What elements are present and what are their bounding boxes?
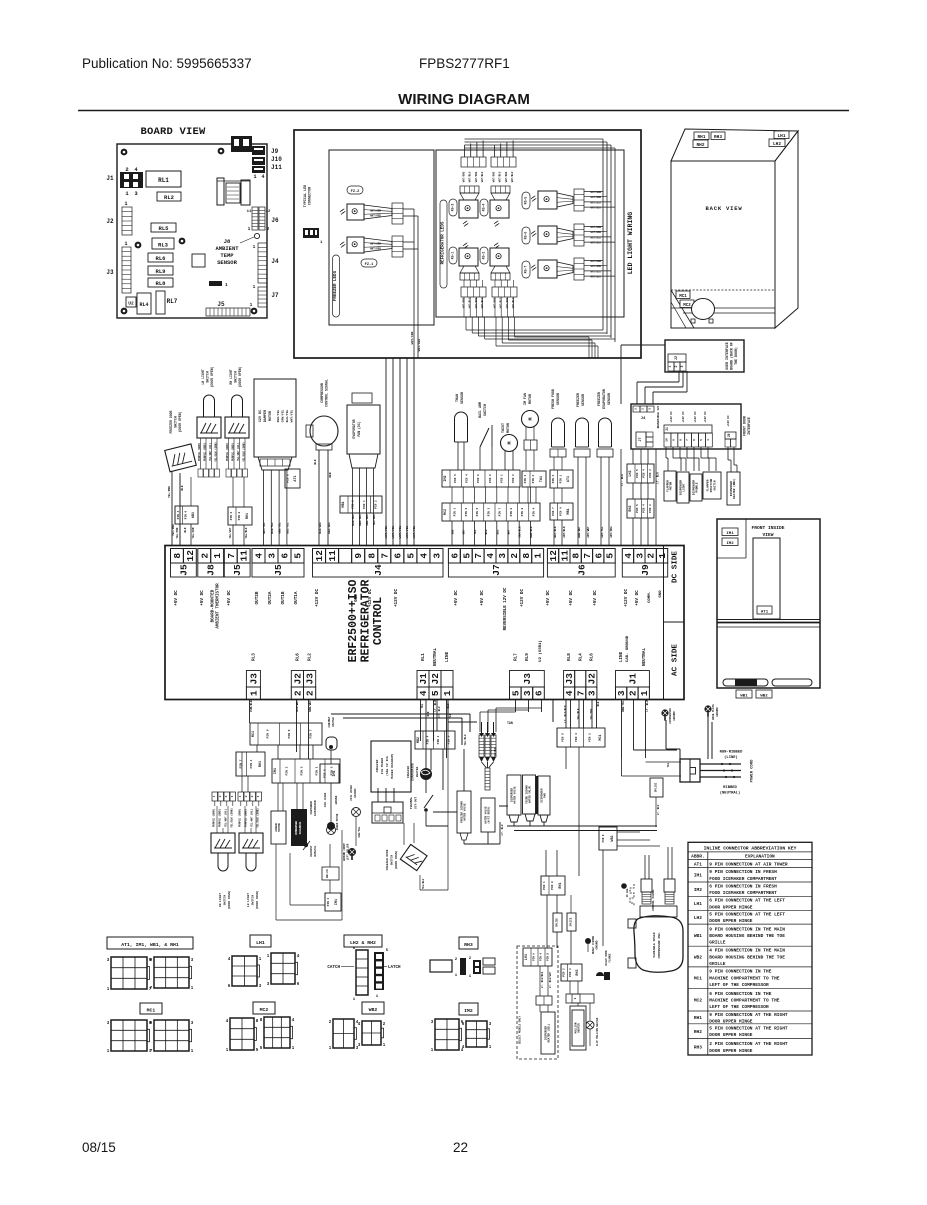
svg-text:J3: J3 (106, 269, 114, 276)
svg-text:2: 2 (251, 795, 254, 797)
svg-text:LH2: LH2 (773, 142, 781, 147)
svg-text:RL7: RL7 (513, 653, 518, 661)
svg-text:LT. BLU: LT. BLU (657, 804, 660, 815)
svg-text:1: 1 (668, 365, 672, 367)
svg-text:1: 1 (253, 244, 256, 250)
svg-text:2: 2 (674, 365, 678, 367)
svg-text:2: 2 (642, 408, 645, 410)
svg-text:CONTROL: CONTROL (372, 597, 385, 645)
svg-text:5: 5 (461, 553, 472, 559)
svg-text:WHT/GRN: WHT/GRN (410, 332, 414, 345)
svg-text:J6: J6 (271, 217, 279, 224)
svg-text:FREEZER: FREEZER (407, 766, 410, 778)
svg-text:SWITCH: SWITCH (234, 371, 238, 383)
svg-text:J2: J2 (106, 218, 114, 225)
svg-text:PIN 9: PIN 9 (562, 733, 565, 742)
svg-text:PIN 2: PIN 2 (562, 968, 565, 977)
svg-text:J7: J7 (271, 292, 279, 299)
svg-text:+5V DC: +5V DC (480, 590, 485, 606)
svg-text:+5V DC: +5V DC (227, 590, 232, 606)
svg-text:PUR/BLK: PUR/BLK (249, 700, 253, 712)
svg-text:PIN 4: PIN 4 (327, 897, 330, 906)
svg-text:GRN: GRN (452, 529, 455, 534)
svg-text:J5: J5 (273, 564, 284, 576)
svg-text:PIN 3: PIN 3 (569, 968, 572, 977)
svg-text:BLK/ORA: BLK/ORA (351, 514, 355, 526)
svg-text:PIN 3: PIN 3 (301, 766, 304, 775)
svg-text:+12V DC: +12V DC (670, 411, 673, 423)
svg-text:J9: J9 (640, 564, 651, 576)
svg-text:PIN 6: PIN 6 (184, 510, 187, 519)
svg-text:RL5: RL5 (159, 225, 170, 232)
svg-text:PIN 5: PIN 5 (636, 469, 639, 478)
svg-text:PIN 1: PIN 1 (501, 474, 504, 483)
svg-text:FOOD ICEMAKER COMPARTMENT: FOOD ICEMAKER COMPARTMENT (709, 876, 777, 882)
svg-text:EXPANSION: EXPANSION (314, 800, 317, 815)
svg-text:8: 8 (571, 553, 582, 559)
svg-text:PIN 3: PIN 3 (524, 474, 527, 483)
svg-text:COMPRESSOR: COMPRESSOR (320, 383, 324, 403)
svg-text:MC2: MC2 (694, 997, 702, 1003)
svg-text:(DOOR OPEN): (DOOR OPEN) (178, 411, 182, 432)
svg-text:DOOR UPPER HINGE: DOOR UPPER HINGE (709, 918, 753, 924)
svg-text:(DOOR OPEN): (DOOR OPEN) (238, 366, 242, 387)
svg-text:AT1: AT1 (694, 861, 702, 867)
svg-text:DOOR UPPER HINGE: DOOR UPPER HINGE (709, 1018, 753, 1024)
svg-text:SWITCH: SWITCH (174, 416, 178, 428)
svg-text:PIN 4: PIN 4 (559, 507, 562, 516)
svg-text:WAXING: WAXING (354, 788, 357, 798)
svg-text:J4: J4 (373, 564, 384, 576)
svg-text:+5V DC: +5V DC (593, 590, 598, 606)
svg-text:DOOR UPPER HINGE: DOOR UPPER HINGE (709, 1048, 753, 1054)
svg-text:3: 3 (432, 553, 443, 559)
svg-text:FZ-1: FZ-1 (365, 263, 374, 267)
svg-text:3: 3 (616, 690, 627, 696)
svg-text:+12V DC: +12V DC (727, 415, 730, 427)
svg-text:REVERSIBLE 12V: REVERSIBLE 12V (657, 405, 660, 428)
svg-text:MC1: MC1 (147, 1008, 156, 1014)
svg-text:WHT/ORG: WHT/ORG (463, 171, 466, 182)
svg-text:PIN 4: PIN 4 (426, 735, 429, 744)
svg-text:08/15: 08/15 (82, 1140, 116, 1155)
svg-text:2: 2 (646, 553, 657, 559)
svg-text:WHT/GRN: WHT/GRN (370, 242, 381, 246)
svg-text:PURPLE (GND): PURPLE (GND) (219, 809, 222, 828)
svg-text:FRONT INSIDE: FRONT INSIDE (751, 525, 784, 531)
svg-text:1: 1 (248, 226, 251, 232)
svg-text:M: M (528, 417, 534, 420)
svg-text:SELECT MODELS ONLY: SELECT MODELS ONLY (519, 1016, 522, 1044)
svg-text:YEL/PNK: YEL/PNK (175, 527, 179, 538)
svg-text:3: 3 (680, 365, 684, 367)
svg-text:WAFTER: WAFTER (332, 717, 335, 727)
svg-text:10: 10 (666, 438, 669, 442)
svg-text:RH LIGHT: RH LIGHT (229, 369, 233, 384)
svg-text:PIN 4: PIN 4 (643, 504, 646, 513)
svg-text:TWIST: TWIST (501, 423, 505, 433)
svg-text:RL3: RL3 (251, 653, 256, 661)
svg-text:4: 4 (707, 439, 710, 441)
svg-text:BLK: BLK (181, 485, 184, 490)
svg-text:USER INTERFACE: USER INTERFACE (725, 342, 729, 370)
svg-text:PIN 3: PIN 3 (649, 469, 652, 478)
svg-text:MB1: MB1 (342, 501, 346, 507)
svg-text:PIN 8: PIN 8 (551, 881, 554, 890)
svg-text:1: 1 (257, 795, 260, 797)
svg-text:GRN/ORA: GRN/ORA (365, 514, 369, 526)
svg-text:5: 5 (293, 553, 304, 559)
svg-text:J1: J1 (418, 673, 429, 685)
svg-text:LH1: LH1 (778, 134, 786, 139)
svg-text:YEL/WHT (H1): YEL/WHT (H1) (251, 809, 254, 828)
svg-text:PIN 5: PIN 5 (636, 504, 639, 513)
svg-text:4: 4 (418, 553, 429, 559)
svg-text:WB1: WB1 (694, 933, 702, 939)
svg-text:FPBS2777RF1: FPBS2777RF1 (419, 56, 510, 71)
svg-text:RED: RED (496, 529, 499, 534)
svg-text:J6: J6 (576, 564, 587, 576)
svg-text:LH LIGHT: LH LIGHT (247, 893, 250, 907)
svg-text:MC2: MC2 (444, 509, 448, 515)
svg-text:FOOD ICEMAKER COMPARTMENT: FOOD ICEMAKER COMPARTMENT (709, 890, 777, 896)
svg-text:PIN 5: PIN 5 (476, 507, 479, 516)
svg-text:RH3: RH3 (714, 135, 722, 140)
svg-text:GRN/YEL: GRN/YEL (281, 410, 285, 423)
svg-text:TEMP: TEMP (220, 252, 234, 259)
svg-text:GROUND: GROUND (716, 707, 719, 717)
svg-text:1: 1 (533, 553, 544, 559)
svg-text:YEL/PNK: YEL/PNK (167, 486, 171, 498)
svg-text:RED/GRA: RED/GRA (327, 522, 331, 534)
svg-text:MOTOR: MOTOR (506, 423, 510, 433)
svg-text:RG-5: RG-5 (524, 197, 528, 205)
svg-text:PIN 2: PIN 2 (286, 766, 289, 775)
svg-text:EVAPORATOR: EVAPORATOR (412, 763, 415, 781)
svg-text:LH LIGHT: LH LIGHT (201, 369, 205, 384)
svg-text:BLU/WHT: BLU/WHT (295, 700, 299, 712)
svg-text:+12V DC: +12V DC (624, 589, 629, 607)
svg-text:WHT/BLK: WHT/BLK (553, 526, 557, 538)
svg-text:11: 11 (247, 210, 252, 214)
svg-text:11: 11 (327, 550, 338, 562)
svg-text:PIN 1: PIN 1 (316, 766, 319, 775)
svg-text:(LINE): (LINE) (724, 755, 738, 760)
svg-text:BLK: BLK (314, 459, 317, 464)
svg-text:RH3: RH3 (464, 942, 473, 948)
svg-text:3: 3 (245, 795, 248, 797)
svg-text:WHT/BLU: WHT/BLU (590, 207, 601, 210)
svg-text:8: 8 (679, 439, 682, 441)
svg-text:MOTOR: MOTOR (278, 823, 281, 832)
svg-text:WHT/YEL: WHT/YEL (398, 526, 402, 539)
svg-text:IM1: IM1 (274, 768, 278, 774)
svg-text:IM1: IM1 (335, 899, 339, 905)
svg-text:+12V DC: +12V DC (682, 411, 685, 423)
svg-text:1: 1 (212, 553, 223, 559)
svg-text:MOTOR: MOTOR (528, 394, 532, 404)
svg-text:AT1: AT1 (567, 476, 571, 482)
svg-text:3: 3 (497, 553, 508, 559)
svg-text:RG-2: RG-2 (482, 252, 486, 260)
svg-text:YEL: YEL (474, 529, 477, 534)
svg-text:PIN 5: PIN 5 (454, 474, 457, 483)
svg-text:RL1: RL1 (421, 653, 426, 661)
svg-text:4: 4 (564, 690, 575, 696)
svg-text:PIN 1: PIN 1 (454, 507, 457, 516)
svg-text:HEATER: HEATER (578, 1023, 581, 1033)
svg-text:MACHINE COMPARTMENT TO THE: MACHINE COMPARTMENT TO THE (709, 997, 780, 1003)
svg-text:GND: GND (659, 590, 663, 598)
svg-text:BOARD (BACK OF: BOARD (BACK OF (730, 342, 734, 370)
svg-text:FZ-2: FZ-2 (351, 190, 360, 194)
svg-text:PIN 4: PIN 4 (643, 469, 646, 478)
svg-text:J3: J3 (564, 673, 575, 685)
svg-text:WHT/YEL: WHT/YEL (384, 526, 388, 539)
svg-text:NEUTRAL: NEUTRAL (433, 648, 438, 666)
svg-text:(DOOR OPEN): (DOOR OPEN) (227, 890, 231, 909)
svg-text:GRY/ORG: GRY/ORG (609, 526, 613, 538)
svg-text:J11: J11 (271, 164, 282, 171)
svg-text:2: 2 (199, 553, 210, 559)
svg-text:SWITCH: SWITCH (224, 895, 227, 906)
svg-text:IM1: IM1 (726, 532, 734, 536)
svg-text:PIN 8: PIN 8 (521, 507, 524, 516)
svg-text:2: 2 (627, 690, 638, 696)
svg-text:8: 8 (366, 553, 377, 559)
svg-text:PIN 1: PIN 1 (543, 881, 546, 890)
svg-text:9 PIN CONNECTION IN THE: 9 PIN CONNECTION IN THE (709, 969, 771, 975)
svg-text:(NEUTRAL): (NEUTRAL) (720, 791, 741, 796)
svg-text:WB2: WB2 (694, 954, 702, 960)
svg-text:YEL: YEL (667, 762, 670, 767)
svg-text:CONNECTOR: CONNECTOR (309, 186, 313, 205)
svg-text:2: 2 (225, 795, 228, 797)
svg-text:WHT/ORG: WHT/ORG (475, 171, 478, 182)
svg-text:RG-1: RG-1 (451, 252, 455, 260)
svg-text:RED/YEL: RED/YEL (285, 522, 289, 534)
svg-text:1: 1 (657, 553, 668, 559)
svg-text:PIN 6: PIN 6 (477, 474, 480, 483)
svg-text:RL9: RL9 (525, 653, 530, 661)
svg-text:WHT/BLU: WHT/BLU (590, 242, 601, 245)
svg-text:1: 1 (635, 408, 638, 410)
svg-text:GROUND: GROUND (673, 711, 676, 721)
svg-text:MC1: MC1 (679, 295, 687, 299)
svg-text:PIN 6: PIN 6 (489, 474, 492, 483)
svg-text:4: 4 (623, 553, 634, 559)
svg-text:PIN 3: PIN 3 (487, 507, 490, 516)
svg-text:J4: J4 (641, 417, 646, 421)
svg-text:WHT/BLU: WHT/BLU (499, 171, 502, 182)
svg-text:PIN 4: PIN 4 (250, 759, 253, 768)
svg-text:MACHINE COMPARTMENT TO THE: MACHINE COMPARTMENT TO THE (709, 975, 780, 981)
svg-text:RL1: RL1 (158, 177, 169, 184)
svg-text:GRN/YEL: GRN/YEL (278, 522, 282, 534)
svg-text:1: 1 (124, 241, 127, 247)
svg-text:LH1: LH1 (694, 901, 702, 907)
svg-text:THAW: THAW (455, 394, 459, 402)
svg-text:(DOOR OPEN): (DOOR OPEN) (255, 890, 259, 909)
svg-text:COIL COVER: COIL COVER (350, 785, 353, 801)
svg-text:1: 1 (250, 302, 253, 308)
svg-text:SPLICE: SPLICE (655, 782, 658, 792)
svg-text:J4: J4 (271, 258, 279, 265)
svg-text:5: 5 (510, 690, 521, 696)
svg-text:8: 8 (521, 553, 532, 559)
svg-text:OUT1B: OUT1B (281, 591, 286, 604)
svg-text:9 PIN CONNECTION AT THE RIGHT: 9 PIN CONNECTION AT THE RIGHT (709, 1012, 788, 1018)
svg-text:LT. BLU: LT. BLU (646, 700, 649, 712)
svg-text:4: 4 (213, 795, 216, 797)
svg-text:22: 22 (453, 1140, 468, 1155)
svg-text:INLINE CONNECTOR ABBREVIATION: INLINE CONNECTOR ABBREVIATION KEY (704, 845, 797, 851)
svg-text:WATER VALVE: WATER VALVE (529, 785, 532, 803)
svg-text:MAKER DIAGRAM): MAKER DIAGRAM) (390, 753, 394, 778)
svg-text:MOTOR: MOTOR (269, 410, 273, 421)
svg-text:REFRIGERATOR LEDS: REFRIGERATOR LEDS (442, 221, 446, 264)
svg-text:OUT2B: OUT2B (255, 591, 260, 604)
svg-text:WHT/ORG: WHT/ORG (493, 171, 496, 182)
svg-text:CONDENSER: CONDENSER (295, 821, 298, 835)
svg-text:2: 2 (509, 553, 520, 559)
svg-text:1: 1 (225, 282, 228, 288)
svg-text:CABINET: CABINET (328, 716, 331, 727)
svg-text:RG-6: RG-6 (524, 232, 528, 240)
svg-text:MOTOR: MOTOR (670, 481, 673, 490)
svg-text:HEATER: HEATER (416, 767, 419, 778)
svg-text:WATER VALVE: WATER VALVE (464, 803, 467, 821)
svg-text:4 PIN CONNECTION IN THE MAIN: 4 PIN CONNECTION IN THE MAIN (709, 948, 785, 954)
svg-text:LIGHT: LIGHT (683, 483, 686, 492)
svg-text:3: 3 (522, 690, 533, 696)
svg-text:6: 6 (534, 690, 545, 696)
svg-text:J2: J2 (675, 356, 679, 360)
svg-text:J2: J2 (586, 673, 597, 685)
svg-text:PIN 6: PIN 6 (448, 735, 451, 744)
svg-text:1: 1 (253, 284, 256, 290)
svg-text:7: 7 (379, 553, 390, 559)
svg-text:PIN 4: PIN 4 (466, 474, 469, 483)
svg-text:+12V DC: +12V DC (704, 411, 707, 423)
svg-text:YEL: YEL (421, 703, 424, 708)
svg-text:GRY: GRY (463, 529, 466, 534)
svg-text:SPLICE: SPLICE (570, 917, 573, 926)
svg-text:CAB. GROUND: CAB. GROUND (626, 635, 630, 662)
svg-text:WHT/BLU: WHT/BLU (590, 236, 601, 239)
svg-text:MC1: MC1 (599, 734, 603, 740)
svg-text:PIN 4: PIN 4 (532, 507, 535, 516)
svg-text:YEL/ORA: YEL/ORA (372, 514, 376, 526)
svg-text:LINE: LINE (445, 651, 450, 662)
svg-text:+5V DC: +5V DC (454, 590, 459, 606)
svg-text:(DOOR OPEN): (DOOR OPEN) (210, 366, 214, 387)
svg-text:PIN 7: PIN 7 (309, 729, 312, 738)
svg-text:WB2: WB2 (611, 835, 615, 841)
svg-text:EVAPORATOR: EVAPORATOR (352, 419, 356, 438)
svg-text:WHT: WHT (508, 529, 511, 534)
svg-text:+12V DC: +12V DC (694, 411, 697, 423)
svg-text:WHT/YEL: WHT/YEL (262, 522, 266, 534)
svg-text:WHT/BLU: WHT/BLU (511, 171, 514, 182)
svg-text:J8: J8 (224, 238, 231, 245)
svg-text:LINE: LINE (619, 651, 624, 662)
svg-text:Publication No: 5995665337: Publication No: 5995665337 (82, 56, 252, 71)
svg-text:11: 11 (239, 550, 250, 562)
svg-text:WHT/GRN: WHT/GRN (370, 209, 381, 213)
svg-text:PIN 2: PIN 2 (512, 474, 515, 483)
svg-text:BOARD HOUSING BEHIND THE TOE: BOARD HOUSING BEHIND THE TOE (709, 954, 785, 960)
svg-text:FRONT DOOR: FRONT DOOR (743, 416, 747, 436)
svg-text:12V DC: 12V DC (259, 410, 263, 422)
svg-text:J2: J2 (292, 673, 303, 685)
svg-text:PIN 8: PIN 8 (238, 511, 241, 520)
svg-text:GRILLE: GRILLE (709, 939, 726, 945)
svg-text:RED/YEL: RED/YEL (276, 410, 280, 423)
svg-text:WHT/YEL: WHT/YEL (412, 526, 416, 539)
svg-text:FREEZER DOOR: FREEZER DOOR (169, 410, 173, 433)
svg-text:RH1: RH1 (694, 1015, 702, 1021)
svg-text:2 PIN CONNECTION AT THE RIGHT: 2 PIN CONNECTION AT THE RIGHT (709, 1041, 788, 1047)
svg-text:COMPRESSOR: COMPRESSOR (669, 708, 672, 724)
svg-text:CUT-OUT: CUT-OUT (415, 797, 418, 809)
svg-text:SENSOR: SENSOR (581, 394, 585, 406)
svg-text:AT1: AT1 (294, 475, 298, 481)
svg-text:PURPLE (GRN): PURPLE (GRN) (213, 809, 216, 828)
svg-text:3: 3 (649, 408, 652, 410)
svg-text:+5V DC: +5V DC (635, 590, 640, 606)
svg-text:U2 (SSR1): U2 (SSR1) (538, 640, 543, 662)
svg-text:PIN 8: PIN 8 (547, 953, 550, 961)
svg-text:WB1: WB1 (740, 695, 748, 699)
svg-text:IM2: IM2 (464, 1008, 473, 1014)
svg-text:BLK/YEL: BLK/YEL (270, 522, 274, 534)
svg-text:RED: RED (329, 472, 332, 477)
svg-text:PIN 3: PIN 3 (575, 733, 578, 742)
svg-text:4: 4 (254, 553, 265, 559)
svg-text:DOOR UPPER HINGE: DOOR UPPER HINGE (709, 904, 753, 910)
svg-text:POWER CORD: POWER CORD (751, 759, 755, 783)
svg-text:9 PIN CONNECTION IN THE MAIN: 9 PIN CONNECTION IN THE MAIN (709, 926, 785, 932)
svg-text:RH1: RH1 (559, 882, 563, 888)
svg-text:MC2: MC2 (260, 1007, 269, 1013)
svg-text:11: 11 (559, 550, 570, 562)
svg-text:BRN/WHT: BRN/WHT (577, 526, 581, 538)
svg-text:RL4: RL4 (139, 302, 148, 308)
svg-text:AUGER MOTOR: AUGER MOTOR (336, 813, 339, 830)
svg-text:RL2: RL2 (164, 194, 174, 201)
svg-text:PIN 5: PIN 5 (465, 507, 468, 516)
svg-text:WB2: WB2 (369, 1007, 378, 1013)
svg-text:12: 12 (266, 210, 271, 214)
svg-text:RH LIGHT: RH LIGHT (219, 893, 222, 907)
svg-text:PIN 7: PIN 7 (499, 507, 502, 516)
svg-text:+5V DC: +5V DC (546, 590, 551, 606)
svg-text:2: 2 (305, 690, 316, 696)
svg-text:RL6: RL6 (156, 255, 166, 262)
svg-text:+5V DC: +5V DC (200, 590, 205, 606)
svg-text:ERF2500++ISO: ERF2500++ISO (347, 580, 360, 663)
svg-text:PIN 2: PIN 2 (374, 500, 377, 509)
svg-text:LT. BLU/WHT: LT. BLU/WHT (549, 971, 552, 988)
svg-text:WHT/BRN: WHT/BRN (590, 226, 601, 229)
svg-text:BAIL ARM: BAIL ARM (478, 402, 482, 418)
svg-text:NEUTRAL: NEUTRAL (642, 648, 647, 666)
svg-text:BASE PLATE: BASE PLATE (712, 704, 715, 720)
svg-text:LT. BLU/BLK: LT. BLU/BLK (541, 971, 544, 988)
svg-text:PIN 4: PIN 4 (552, 474, 555, 483)
svg-text:FREEZER: FREEZER (597, 392, 601, 406)
